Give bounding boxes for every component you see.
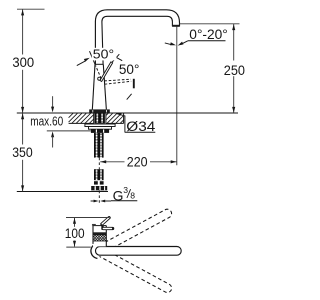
svg-text:250: 250 [224,63,246,78]
svg-text:3: 3 [123,185,128,195]
svg-text:100: 100 [65,226,85,241]
svg-text:350: 350 [12,145,33,160]
svg-text:max.60: max.60 [30,113,63,128]
svg-text:50°: 50° [119,62,139,77]
svg-text:8: 8 [130,191,135,201]
svg-text:50°: 50° [93,47,114,62]
svg-text:Ø34: Ø34 [126,118,155,134]
svg-text:300: 300 [12,55,34,70]
svg-text:G: G [113,187,124,203]
svg-text:0°-20°: 0°-20° [189,27,228,42]
svg-text:220: 220 [127,155,148,170]
